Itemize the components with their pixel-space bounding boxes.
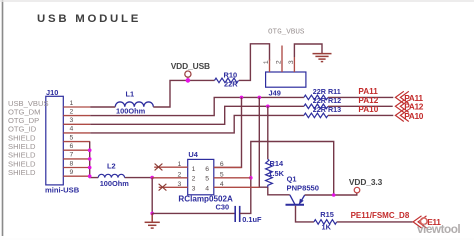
svg-text:1: 1 (70, 100, 74, 107)
svg-text:mini-USB: mini-USB (45, 185, 80, 194)
port name E11 with logo circle (421, 218, 428, 225)
sheet border top edge (0, 0, 474, 2)
resistor R11 (304, 95, 328, 100)
resistor R15 (314, 220, 337, 225)
svg-text:PA10: PA10 (404, 111, 424, 121)
wire: R12 to port PA12 (328, 105, 393, 107)
sheet border left edge (2, 0, 4, 236)
J10 pin numbers (70, 100, 74, 176)
wire: L1 to VDD_USB riser (153, 80, 214, 107)
svg-text:RClamp0502A: RClamp0502A (178, 195, 233, 204)
wire: OTG_ID staircase (pin4 up to row3) (90, 115, 304, 132)
svg-text:2: 2 (275, 60, 282, 64)
wire: Q1 base drop to R15 (296, 206, 314, 222)
svg-text:PA10: PA10 (358, 105, 378, 114)
wire: pin1 to L1 (90, 106, 115, 108)
port chevron PA12 (395, 100, 408, 112)
J10 left net name labels (gray) (8, 99, 49, 177)
wire: C30 right plate up to pin5 rail (240, 142, 334, 214)
wire: shield bus vertical pins 5-9 (90, 142, 99, 178)
svg-text:100Ohm: 100Ohm (116, 107, 146, 116)
svg-text:3: 3 (70, 117, 74, 124)
wire: row1 drop to pin4 rail (259, 97, 268, 187)
wire: GND drop (151, 178, 153, 214)
svg-text:9: 9 (70, 169, 74, 176)
resistor R10 (215, 78, 239, 83)
junction shield bus at pin6 (88, 148, 92, 152)
svg-text:PA12: PA12 (358, 96, 378, 105)
svg-text:OTG_DM: OTG_DM (8, 107, 41, 116)
svg-text:6: 6 (70, 143, 74, 150)
J49 pin numbers (rotated) (263, 60, 295, 64)
svg-text:8: 8 (70, 160, 74, 167)
U4 outside pin numbers (178, 161, 224, 188)
svg-text:5: 5 (205, 175, 209, 182)
junction row2 to R14 top (266, 105, 270, 109)
svg-text:1: 1 (192, 166, 196, 173)
junction collector-loop on emitter wire (332, 193, 336, 197)
resistor R14 (vertical) (266, 159, 273, 188)
svg-text:4: 4 (205, 185, 209, 192)
connector J49 body (266, 72, 306, 87)
resistor R13 (304, 113, 328, 118)
no-connect X at U4 pin3 (159, 184, 167, 191)
junction U4 pin5 on rail (249, 176, 253, 180)
svg-text:2: 2 (192, 175, 196, 182)
wire: OTG_DP staircase (pin3 up to row2) (90, 106, 304, 124)
svg-text:viewtool: viewtool (417, 222, 460, 236)
svg-text:1.5K: 1.5K (268, 169, 284, 178)
U4 inside pin numbers (192, 166, 210, 193)
wire: R14 bottom to Q1 collector (268, 187, 290, 195)
svg-text:7: 7 (70, 152, 74, 159)
svg-text:22R R11: 22R R11 (313, 87, 341, 96)
svg-text:22R: 22R (224, 80, 238, 89)
svg-text:USB MODULE: USB MODULE (37, 13, 141, 25)
J10 pin stubs (bright red pin leads) (63, 107, 90, 176)
power port VDD_3.3 (354, 187, 360, 193)
svg-text:U4: U4 (188, 150, 198, 159)
svg-text:PA11: PA11 (358, 87, 378, 96)
U4 pin stubs (152, 167, 259, 187)
svg-text:VDD_USB: VDD_USB (171, 61, 210, 71)
svg-text:1: 1 (263, 60, 270, 64)
junction row1 to U4 pin6 (240, 96, 244, 100)
svg-text:L2: L2 (107, 161, 116, 170)
svg-text:SHIELD: SHIELD (8, 142, 36, 151)
port chevron PA11 (395, 91, 408, 103)
svg-text:J49: J49 (269, 89, 281, 98)
svg-text:Q1: Q1 (287, 174, 297, 183)
junction at GND drop on L2 wire (150, 176, 154, 180)
svg-text:L1: L1 (126, 90, 135, 99)
svg-text:3: 3 (192, 185, 196, 192)
wire: R13 to port PA10 (328, 114, 393, 116)
wire: row1 drop to U4 pin6 (214, 97, 242, 167)
wire: OTG_DM staircase (pin2 up to row1) (90, 97, 304, 115)
junction row1 to R14 branch (258, 96, 262, 100)
svg-text:2: 2 (70, 108, 74, 115)
svg-text:PE11/FSMC_D8: PE11/FSMC_D8 (351, 211, 410, 220)
transistor Q1 PNP8550 (286, 195, 305, 205)
junction shield bus at pin9 (88, 174, 92, 178)
IC U4 RClamp0502A body (188, 159, 214, 194)
inductor L1 (115, 102, 153, 107)
svg-text:VDD_3.3: VDD_3.3 (349, 177, 383, 187)
ground symbol at C30 rail (145, 213, 160, 228)
port chevron PA10 (395, 109, 408, 121)
svg-text:OTG_VBUS: OTG_VBUS (268, 29, 305, 37)
junction at VDD_USB tap (186, 78, 191, 83)
svg-text:J10: J10 (46, 88, 58, 97)
svg-text:SHIELD: SHIELD (8, 159, 36, 168)
wire: R10 to J49 pin1 (239, 44, 270, 81)
wire: J49 pin3 to ground (294, 44, 322, 57)
svg-text:4: 4 (70, 126, 74, 133)
svg-text:0.1uF: 0.1uF (242, 215, 262, 224)
junction shield bus at pin8 (88, 166, 92, 170)
inductor L2 (98, 174, 124, 177)
svg-text:R10: R10 (224, 71, 238, 80)
capacitor C30 (235, 206, 240, 222)
svg-text:5: 5 (70, 134, 74, 141)
wire: R15 to port E11 (337, 221, 413, 223)
svg-text:SHIELD: SHIELD (8, 168, 36, 177)
svg-text:1K: 1K (322, 223, 332, 232)
svg-text:C30: C30 (216, 203, 230, 212)
svg-text:6: 6 (205, 166, 209, 173)
power port VDD_USB (185, 71, 191, 77)
svg-text:OTG_ID: OTG_ID (8, 125, 37, 134)
svg-text:100Ohm: 100Ohm (100, 179, 130, 188)
resistor R12 (304, 104, 328, 109)
svg-text:R15: R15 (320, 210, 334, 219)
junction shield bus at pin7 (88, 157, 92, 161)
wire: Q1 emitter to VDD_3.3 (305, 193, 357, 195)
port chevron E11 (413, 216, 426, 228)
connector J10 body (46, 96, 64, 185)
junction at GND rail (150, 212, 154, 216)
no-connect X at U4 pin1 (155, 164, 163, 171)
svg-text:PNP8550: PNP8550 (287, 184, 320, 193)
svg-text:3: 3 (288, 60, 295, 64)
J49 pin stubs (270, 46, 295, 73)
ground symbol at J49 (313, 54, 332, 62)
wire: R11 to port PA11 (328, 96, 393, 98)
wire: GND rail to C30 (152, 212, 235, 214)
svg-text:R14: R14 (270, 159, 284, 168)
wire: L2 output to U4 pin2 (125, 177, 153, 179)
wire: row2 drop to R14 top (267, 106, 269, 159)
